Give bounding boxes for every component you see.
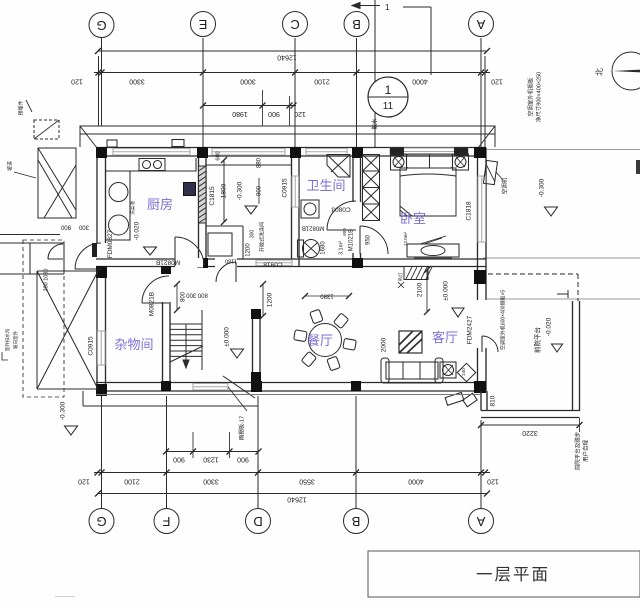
kitchen counter — [106, 158, 196, 171]
svg-text:厨房: 厨房 — [147, 197, 173, 212]
outbuilding door arc — [48, 244, 63, 259]
canopy leader — [228, 387, 247, 411]
grid line B bottom — [355, 396, 357, 508]
terrace bottom wall — [481, 410, 580, 412]
svg-text:前院平台: 前院平台 — [533, 327, 542, 353]
shower corner with X — [327, 155, 350, 178]
svg-text:C0803: C0803 — [331, 205, 351, 212]
bedside table right — [453, 154, 469, 170]
grid bubble B top — [344, 12, 369, 37]
column — [474, 381, 486, 393]
grid line C top — [294, 38, 296, 148]
door FDM0827 kitchen back (swings west) — [75, 243, 101, 269]
svg-text:900: 900 — [268, 110, 280, 117]
svg-text:雨棚板-17: 雨棚板-17 — [237, 416, 245, 440]
front step blocks — [445, 392, 464, 405]
svg-text:1800: 1800 — [221, 183, 228, 198]
washbasin — [301, 200, 319, 218]
dimension sub-chain top 1980/900/120 — [203, 105, 296, 107]
svg-text:1180: 1180 — [225, 258, 237, 264]
svg-text:坡向室外: 坡向室外 — [12, 331, 19, 349]
svg-text:600: 600 — [215, 151, 221, 160]
column — [251, 372, 261, 382]
site line right y150 — [487, 149, 640, 151]
vent shaft hatched — [404, 267, 428, 280]
svg-text:C1818: C1818 — [466, 201, 473, 221]
svg-text:-0.020: -0.020 — [546, 317, 553, 336]
grid line D bottom — [257, 396, 259, 508]
svg-text:D: D — [253, 514, 262, 529]
svg-text:洗菜池: 洗菜池 — [129, 201, 136, 215]
door M1021B bedroom (B wall) — [360, 226, 388, 254]
svg-text:950: 950 — [366, 234, 372, 245]
svg-text:12640: 12640 — [287, 496, 307, 503]
svg-text:200 1080: 200 1080 — [43, 269, 49, 292]
apron line bottom — [83, 405, 258, 407]
grid line A top — [480, 38, 482, 148]
interior wall F — [162, 267, 164, 273]
svg-text:3300: 3300 — [129, 78, 145, 85]
eave outline — [80, 126, 495, 148]
interior wall E — [198, 148, 200, 260]
svg-text:4000: 4000 — [412, 78, 428, 85]
svg-text:300: 300 — [78, 223, 89, 229]
svg-text:120: 120 — [487, 478, 499, 485]
interior wall C — [291, 148, 293, 267]
sink basin 1 — [109, 183, 128, 202]
wardrobe with X cells — [363, 155, 380, 221]
svg-text:880: 880 — [257, 157, 263, 168]
svg-text:3.1m²: 3.1m² — [338, 241, 344, 255]
svg-text:一层平面: 一层平面 — [476, 565, 550, 584]
svg-text:11: 11 — [383, 101, 394, 112]
pendant mark — [398, 282, 404, 288]
window C0915 storage left — [98, 331, 106, 365]
svg-text:预埋件: 预埋件 — [17, 100, 24, 115]
svg-text:用户自理: 用户自理 — [581, 440, 589, 463]
grid bubble E top — [191, 12, 216, 37]
svg-text:120: 120 — [491, 78, 503, 85]
terrace dashed outline — [488, 273, 578, 275]
svg-text:室外排水沟: 室外排水沟 — [4, 328, 11, 351]
dimension chain top 120/3300/3000/2100/4000/120 — [94, 72, 490, 74]
entry door leaf diagonal — [223, 376, 255, 398]
svg-text:3220: 3220 — [522, 429, 538, 436]
dimension chain bottom — [94, 472, 490, 474]
site line right y258 — [483, 257, 640, 259]
column — [251, 309, 261, 319]
grid bubble C top — [283, 12, 308, 37]
svg-text:空调机: 空调机 — [500, 177, 508, 194]
dining table round — [309, 324, 342, 357]
grid line A bottom — [480, 420, 482, 508]
column — [352, 147, 363, 158]
grid bubble G top — [89, 13, 114, 38]
window C1206 bottom — [193, 384, 228, 391]
svg-text:300: 300 — [249, 230, 255, 239]
terrace right wall — [572, 301, 574, 411]
column — [96, 147, 107, 158]
svg-text:3550: 3550 — [299, 478, 315, 485]
window C0915 bath left — [292, 176, 299, 207]
svg-text:1200: 1200 — [267, 292, 274, 307]
svg-text:3000: 3000 — [240, 78, 256, 85]
svg-text:空调室外机600×400搁板×5: 空调室外机600×400搁板×5 — [499, 290, 506, 351]
column — [161, 266, 171, 274]
threshold mark terrace top — [557, 290, 568, 298]
right edge mark — [636, 160, 640, 174]
column — [474, 270, 486, 284]
door FDM2427 living to terrace (A wall) — [482, 336, 498, 352]
window bath top — [306, 149, 347, 156]
column — [96, 266, 107, 278]
svg-text:卫生间: 卫生间 — [306, 178, 345, 193]
dressing table — [407, 244, 459, 257]
window C1818 bedroom right — [478, 176, 486, 242]
yard cross X — [37, 271, 98, 389]
svg-text:客厅: 客厅 — [432, 330, 458, 345]
column — [197, 147, 208, 158]
svg-text:4000: 4000 — [408, 478, 424, 485]
window C1815 hatched — [199, 166, 207, 223]
svg-text:12.0m²: 12.0m² — [403, 232, 408, 247]
toilet — [298, 240, 304, 257]
svg-text:C0918: C0918 — [263, 260, 283, 267]
door M0821B bath (swings inside bath) — [327, 201, 356, 230]
svg-text:G: G — [96, 18, 106, 33]
middle interior wall — [96, 258, 486, 260]
svg-text:吊灯: 吊灯 — [397, 272, 404, 281]
embedded part dashed box — [34, 120, 59, 139]
outbuilding wall stub — [92, 243, 97, 257]
svg-text:-0.300: -0.300 — [539, 178, 546, 197]
site line right y299 — [487, 298, 640, 300]
svg-text:A: A — [476, 17, 485, 32]
svg-text:900: 900 — [237, 456, 249, 463]
svg-text:1: 1 — [385, 83, 392, 97]
gas stove — [139, 159, 165, 171]
column — [290, 147, 301, 158]
window lightwell top — [212, 149, 285, 156]
staircase — [170, 310, 203, 370]
column — [251, 381, 262, 392]
svg-text:1230: 1230 — [203, 456, 219, 463]
dim 1800 lightwell — [223, 160, 225, 222]
svg-text:F: F — [162, 514, 170, 529]
svg-text:开敞式洗涤间: 开敞式洗涤间 — [258, 222, 265, 252]
svg-text:M0821B: M0821B — [149, 292, 156, 316]
chimney flue on top wall — [172, 140, 184, 147]
svg-text:-0.300: -0.300 — [60, 401, 67, 420]
svg-text:B: B — [352, 514, 361, 529]
svg-text:空调室外机搁板: 空调室外机搁板 — [526, 77, 534, 116]
svg-text:杂物间: 杂物间 — [114, 337, 153, 352]
svg-text:M1021B: M1021B — [349, 229, 355, 251]
svg-text:900: 900 — [173, 456, 185, 463]
svg-text:-0.300: -0.300 — [237, 181, 244, 200]
lightwell sill line — [206, 164, 292, 166]
column — [197, 258, 208, 268]
sink basin 2 — [109, 215, 129, 235]
dimension overall 12640 bottom — [98, 493, 487, 495]
column — [161, 381, 171, 391]
window kitchen top — [113, 149, 190, 156]
dim 2100 bedroom — [426, 270, 428, 312]
svg-text:2100: 2100 — [314, 78, 330, 85]
column — [352, 258, 363, 268]
svg-text:餐厅: 餐厅 — [307, 333, 333, 348]
svg-text:FDM2427: FDM2427 — [467, 315, 474, 344]
svg-text:坡道: 坡道 — [6, 161, 13, 171]
grid bubble F bottom — [154, 509, 179, 534]
svg-text:12640: 12640 — [277, 54, 297, 61]
svg-text:北: 北 — [595, 68, 604, 76]
svg-text:±0.000: ±0.000 — [443, 281, 450, 301]
svg-text:900: 900 — [257, 185, 263, 196]
svg-text:600: 600 — [342, 228, 347, 236]
svg-text:C0915: C0915 — [282, 178, 289, 198]
svg-text:前院平台及踏步: 前院平台及踏步 — [573, 431, 581, 470]
svg-text:120: 120 — [71, 78, 83, 85]
dim 3220 — [481, 424, 580, 426]
side table with plant — [440, 362, 456, 378]
north compass — [612, 52, 640, 90]
svg-text:M0821B: M0821B — [302, 224, 324, 230]
svg-text:800 300: 800 300 — [186, 291, 208, 297]
interior wall B — [352, 148, 354, 203]
fridge — [184, 183, 196, 196]
window bedroom C2415 — [390, 148, 468, 155]
dim 900 lightwell — [258, 178, 260, 204]
svg-text:120: 120 — [294, 110, 306, 117]
svg-text:A: A — [476, 514, 485, 529]
svg-text:1: 1 — [385, 3, 390, 12]
TV cabinet hatched — [399, 331, 422, 353]
column — [351, 381, 361, 391]
svg-text:120: 120 — [78, 478, 90, 485]
grid line G top — [99, 38, 102, 126]
svg-text:C0915: C0915 — [88, 336, 95, 356]
svg-text:1680: 1680 — [321, 241, 327, 255]
right exterior wall A — [477, 148, 479, 301]
grid line F bottom — [166, 396, 168, 508]
grid line G bottom — [101, 396, 103, 508]
detail index bubble 1/11 — [368, 77, 408, 117]
svg-text:240: 240 — [461, 368, 466, 376]
left exterior wall G — [96, 148, 98, 244]
AC outdoor unit pad — [483, 160, 497, 184]
svg-text:散水: 散水 — [370, 118, 378, 130]
svg-text:2100: 2100 — [124, 478, 140, 485]
door shower room (swings south) — [216, 262, 236, 282]
sofa — [386, 362, 438, 379]
window C0918 middle wall — [256, 260, 292, 266]
porch dim 900/1230/900 — [166, 451, 259, 453]
svg-text:810: 810 — [490, 395, 497, 406]
bed — [407, 154, 453, 168]
svg-text:卧室: 卧室 — [400, 211, 426, 226]
left yard dashed boundary — [23, 240, 64, 397]
svg-text:1200: 1200 — [246, 243, 252, 257]
svg-text:FDM0827: FDM0827 — [107, 229, 114, 258]
section cut line 1 at top — [352, 0, 431, 147]
grid bubble D bottom — [246, 509, 271, 534]
outbuilding rooms — [0, 235, 64, 275]
door M0821B kitchen (mid wall, swings into kitchen) — [175, 237, 204, 266]
svg-text:M0821B: M0821B — [156, 258, 180, 265]
svg-text:G: G — [96, 514, 106, 529]
svg-text:1380: 1380 — [320, 292, 334, 298]
door M0821B storage (F wall, swings west) — [142, 276, 169, 303]
svg-text:-0.020: -0.020 — [134, 221, 141, 240]
grid line E top — [202, 38, 204, 148]
svg-text:800: 800 — [181, 291, 187, 302]
column — [96, 384, 107, 396]
dim 800 storage — [176, 284, 178, 310]
door gap shower mid wall — [215, 258, 237, 268]
svg-text:B: B — [352, 17, 361, 32]
svg-text:900: 900 — [60, 223, 71, 229]
dim 1200 hall — [262, 284, 264, 316]
svg-text:2000: 2000 — [381, 337, 388, 352]
title box — [368, 551, 640, 597]
door gap kitchen mid wall — [175, 258, 203, 268]
diamond plant stand — [457, 363, 475, 381]
svg-text:3300: 3300 — [203, 478, 219, 485]
svg-text:±0.000: ±0.000 — [224, 327, 231, 347]
grid bubble B bottom — [344, 509, 369, 534]
ramp block — [38, 148, 76, 218]
svg-text:E: E — [198, 17, 207, 32]
grid line B top — [356, 38, 358, 148]
bottom exterior wall — [96, 382, 486, 384]
grid bubble A top — [469, 12, 494, 37]
svg-text:C: C — [290, 17, 299, 32]
top exterior wall — [96, 147, 486, 149]
svg-text:1980: 1980 — [232, 110, 248, 117]
dim 1380 dining — [305, 295, 349, 297]
grid bubble G bottom — [89, 509, 114, 534]
shower room partitions — [206, 226, 243, 259]
column — [474, 147, 486, 158]
svg-text:C1815: C1815 — [209, 186, 216, 206]
dimension overall 12640 top — [98, 50, 487, 52]
svg-text:净尺寸900×400×250: 净尺寸900×400×250 — [534, 72, 542, 122]
small flue rect left — [107, 140, 117, 147]
bedside table left — [391, 154, 407, 170]
interior wall D — [252, 309, 254, 383]
svg-text:2100: 2100 — [417, 282, 424, 297]
faint mark bottom left — [55, 596, 75, 598]
grid bubble A bottom — [469, 509, 494, 534]
